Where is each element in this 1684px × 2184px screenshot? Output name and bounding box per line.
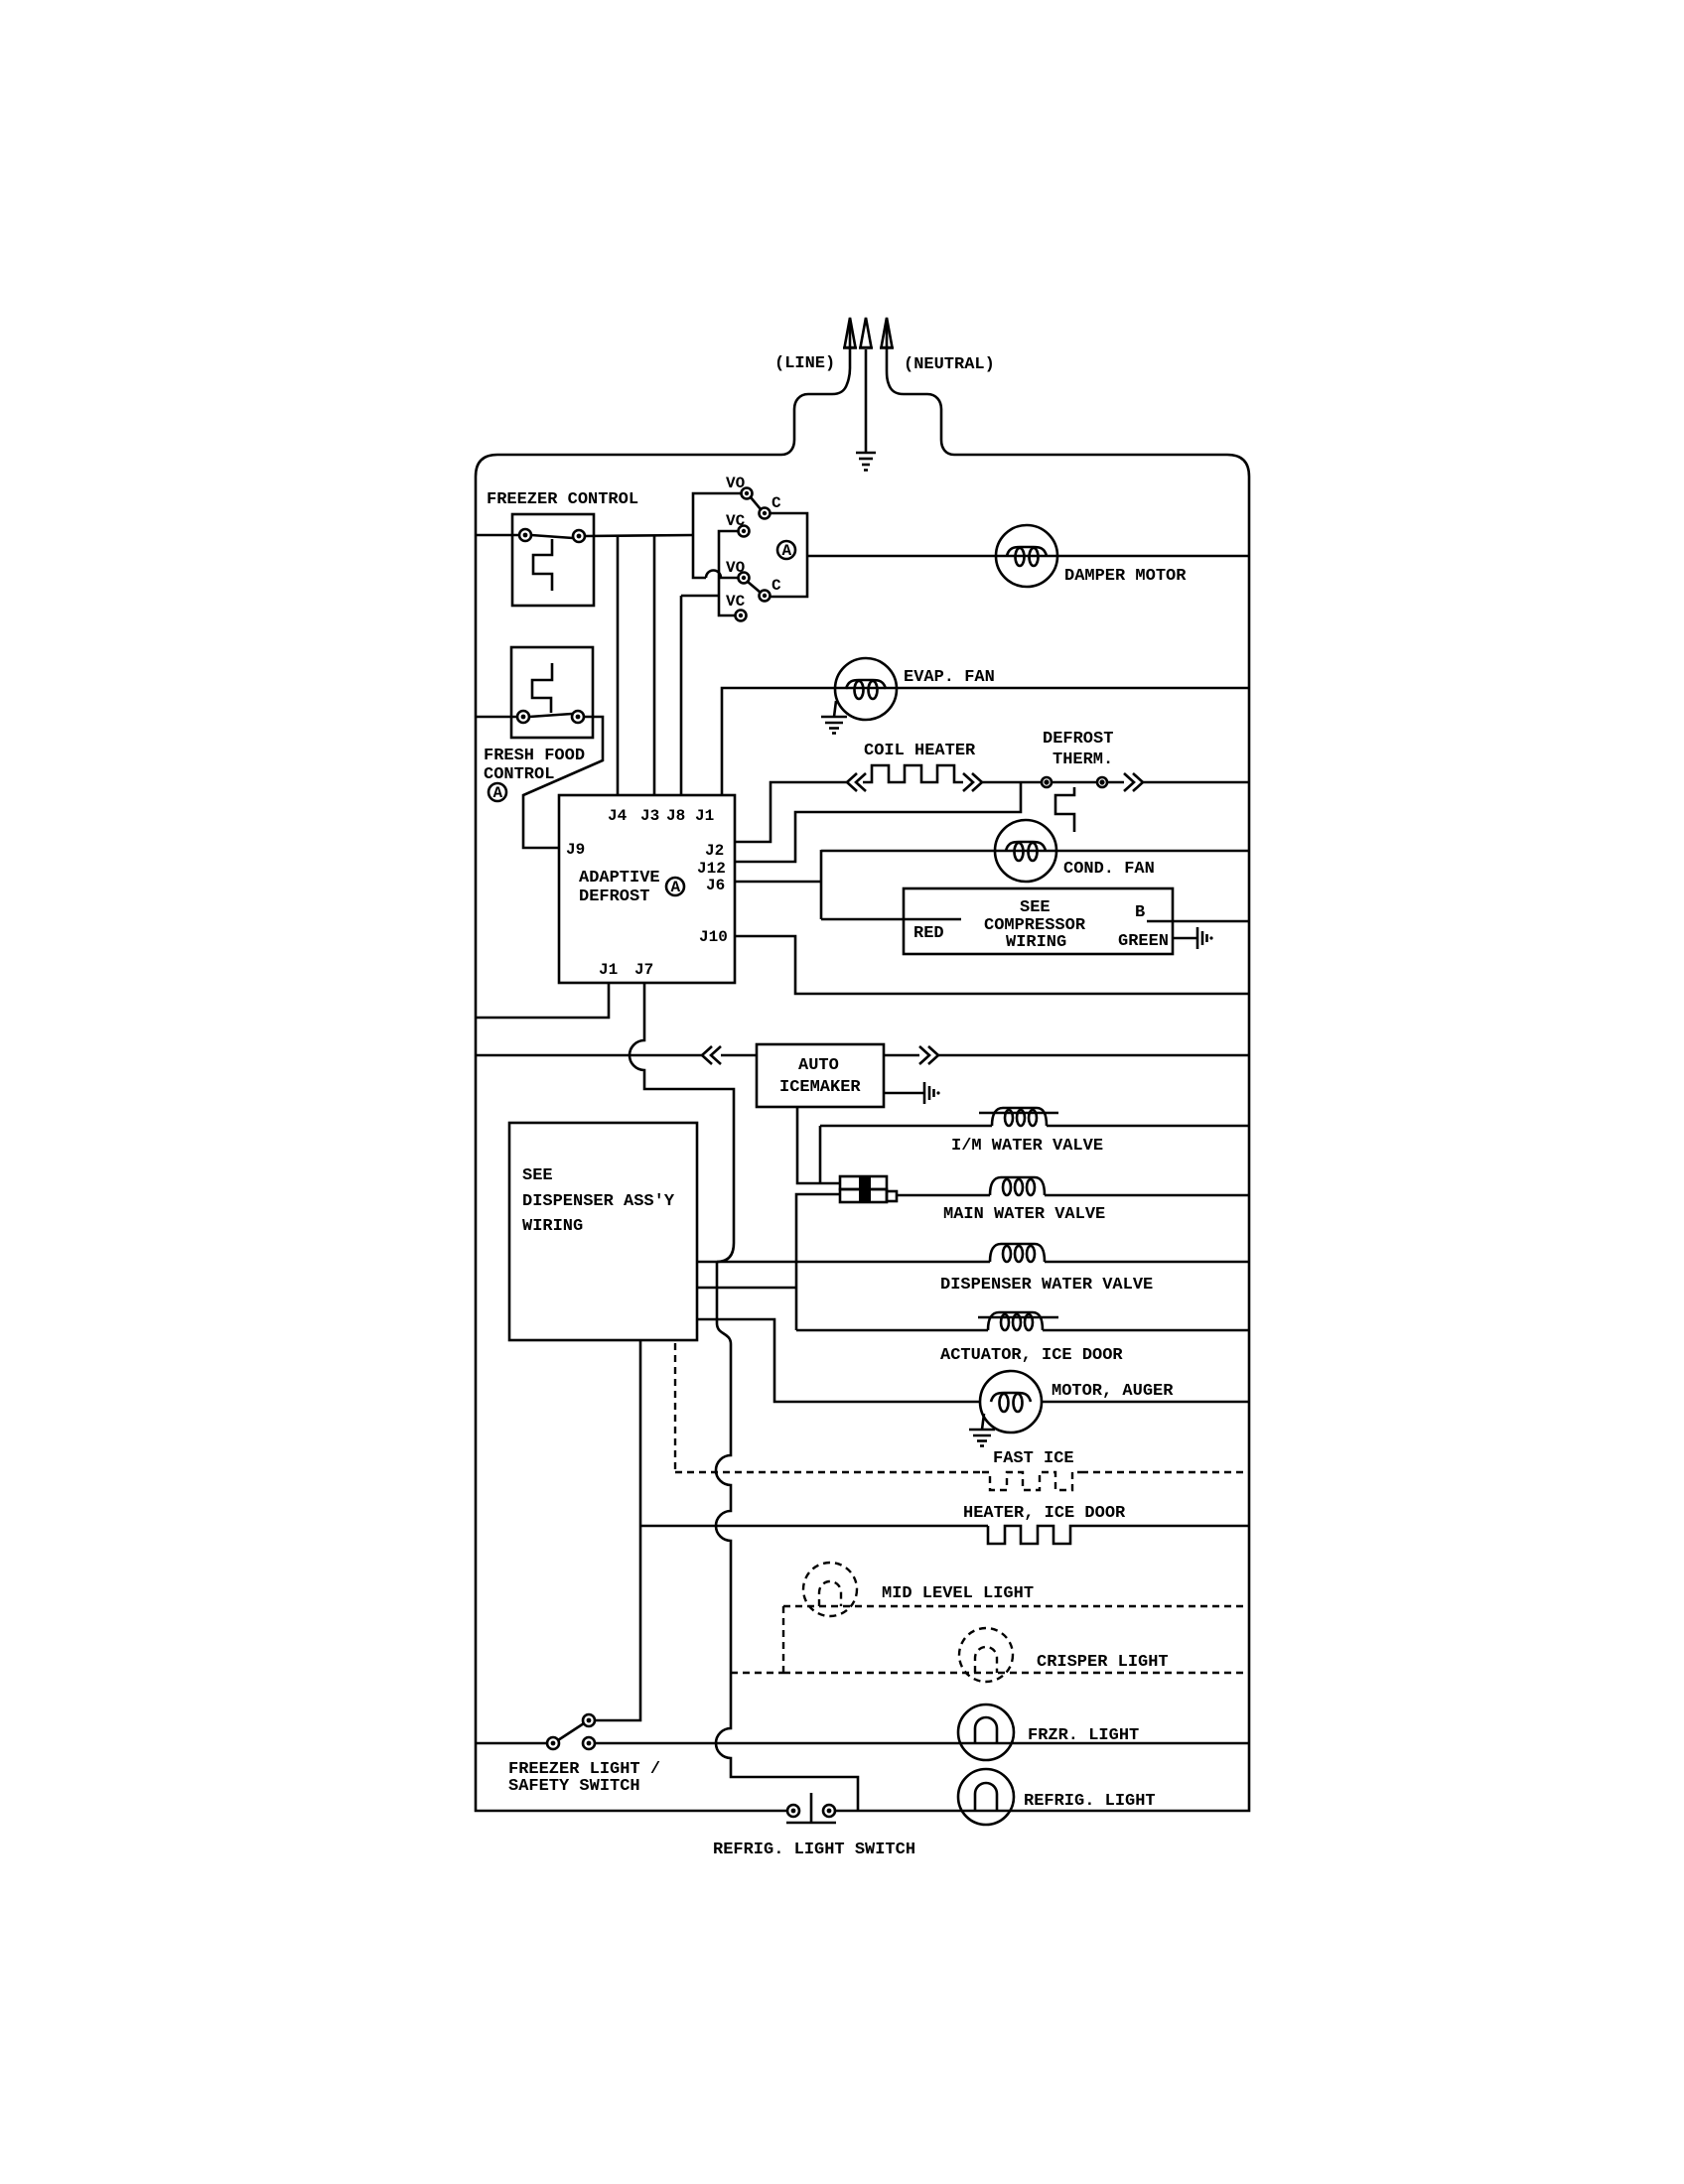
wire VC1 to VC riser: [719, 531, 738, 615]
wire NEUTRAL bus: hump, top edge, right edge, bottom edge to switch: [835, 349, 1249, 1811]
wire relay to damper motor: [807, 555, 1249, 558]
svg-text:DAMPER MOTOR: DAMPER MOTOR: [1064, 567, 1187, 586]
svg-text:THERM.: THERM.: [1052, 751, 1113, 769]
svg-text:ADAPTIVE: ADAPTIVE: [579, 869, 660, 887]
svg-text:REFRIG. LIGHT: REFRIG. LIGHT: [1024, 1792, 1156, 1811]
wire J8 riser elbow to VC riser: [681, 595, 719, 598]
svg-text:HEATER, ICE DOOR: HEATER, ICE DOOR: [963, 1504, 1126, 1523]
terminal VC1: [739, 526, 750, 537]
connector chevrons before coil heater: [847, 773, 866, 791]
relay box A: [770, 513, 807, 597]
wire defrost therm to right bus: [1143, 781, 1249, 784]
wire main valve to right bus: [1045, 1194, 1249, 1197]
supply arrow (ground): [859, 318, 873, 348]
svg-text:DEFROST: DEFROST: [579, 887, 649, 906]
evap fan motor M2: [835, 658, 897, 720]
svg-text:ICEMAKER: ICEMAKER: [779, 1078, 861, 1097]
crisper light lamp DS2 (dashed): [959, 1628, 1013, 1682]
svg-text:MID LEVEL LIGHT: MID LEVEL LIGHT: [882, 1584, 1034, 1603]
wire dispenser valve to right bus: [1045, 1261, 1249, 1264]
wire J6 to cond fan junction: [735, 881, 821, 884]
defrost thermostat sensing element: [1055, 787, 1074, 832]
freezer light switch blade: [558, 1723, 584, 1740]
ground at evap fan: [821, 701, 847, 734]
wire dashed branch crisper: [731, 1672, 783, 1674]
refrig light switch terminal right: [823, 1805, 835, 1817]
wire J12 to defrost therm junction: [735, 782, 1021, 862]
svg-text:J3: J3: [640, 807, 659, 825]
connector chevrons after defrost therm: [1124, 773, 1143, 791]
freezer control terminal left: [519, 529, 531, 541]
chassis ground at GREEN: [1197, 927, 1213, 949]
wire freezer light switch to frzr light: [595, 1742, 1249, 1745]
mid level light lamp DS1 (dashed): [803, 1563, 857, 1616]
main water valve coil L2: [990, 1177, 1045, 1195]
wire between defrost therm terminals: [1052, 781, 1097, 784]
terminal C2: [760, 591, 771, 602]
svg-text:FRESH FOOD: FRESH FOOD: [484, 747, 585, 765]
wire dispenser box to actuator riser: [697, 1287, 796, 1290]
coil heater element: [863, 765, 963, 782]
switch blade VO2-C2: [748, 582, 761, 593]
wire VO1 to VO riser: [693, 493, 741, 578]
actuator ice door coil L4: [978, 1312, 1058, 1330]
dispenser water valve coil L3: [990, 1244, 1045, 1262]
svg-text:A: A: [671, 879, 681, 896]
terminal VC2: [736, 611, 747, 621]
wire GREEN to chassis ground: [1173, 937, 1197, 940]
svg-text:SEE: SEE: [522, 1166, 553, 1185]
ground at auger motor: [969, 1414, 995, 1446]
wire B to right bus: [1147, 920, 1249, 923]
freezer light switch terminal right: [583, 1737, 595, 1749]
cond fan motor M3: [995, 820, 1056, 882]
riser J8: [680, 596, 683, 795]
fast ice heater element R1 (dashed): [982, 1472, 1081, 1490]
svg-text:DISPENSER ASS'Y: DISPENSER ASS'Y: [522, 1192, 675, 1211]
svg-text:J2: J2: [705, 842, 724, 860]
wire defrost therm to connector: [1107, 781, 1124, 784]
adaptive defrost board U1: [559, 795, 735, 983]
svg-text:VC: VC: [726, 593, 746, 611]
auger motor M4: [980, 1371, 1042, 1433]
switch blade VO1-C1: [751, 497, 761, 509]
svg-text:J8: J8: [666, 807, 685, 825]
supply arrow (NEUTRAL): [880, 318, 894, 349]
connector chevrons after icemaker: [919, 1046, 938, 1064]
svg-text:(NEUTRAL): (NEUTRAL): [904, 355, 995, 374]
connector chevrons after coil heater: [963, 773, 982, 791]
wire coil heater to defrost therm: [982, 781, 1042, 784]
compressor wiring box: [904, 888, 1173, 954]
fresh food sensing element: [532, 663, 552, 713]
fresh food terminal left: [517, 711, 529, 723]
wire crisper light dashed: [783, 1672, 1249, 1674]
freezer light switch terminal upper: [583, 1714, 595, 1726]
svg-text:SAFETY SWITCH: SAFETY SWITCH: [508, 1777, 640, 1796]
wire left edge to freezer control: [476, 534, 519, 537]
wire icemaker feed from left bus: [476, 1054, 702, 1057]
refrig light lamp DS4: [958, 1769, 1014, 1825]
supply arrow (LINE): [843, 318, 857, 349]
wire dashed riser to mid level light: [782, 1606, 784, 1673]
svg-text:J7: J7: [634, 961, 653, 979]
wire J2 to coil heater: [735, 782, 847, 842]
refrig light switch plunger: [786, 1793, 836, 1823]
svg-text:WIRING: WIRING: [522, 1217, 583, 1236]
wire RED to compressor: [821, 918, 961, 921]
wire heater ice door to right bus: [1079, 1525, 1249, 1528]
SUPPLY: [476, 318, 1249, 1811]
wire dispenser box to auger motor: [697, 1319, 980, 1402]
svg-text:EVAP. FAN: EVAP. FAN: [904, 668, 995, 687]
wire riser fuse to I/M valve: [819, 1126, 822, 1183]
svg-text:DEFROST: DEFROST: [1043, 730, 1113, 749]
earth ground symbol: [856, 453, 876, 471]
wire riser dispenser box bottom to freezer light switch: [594, 1340, 640, 1720]
wire to cond fan: [821, 850, 1249, 853]
auto icemaker box: [757, 1044, 884, 1107]
svg-text:J10: J10: [699, 928, 728, 946]
svg-text:GREEN: GREEN: [1118, 932, 1169, 951]
svg-text:J12: J12: [697, 860, 726, 878]
wire J7 riser with hop over icemaker wire: [630, 983, 734, 1262]
svg-text:COND. FAN: COND. FAN: [1063, 860, 1155, 879]
svg-text:J1: J1: [695, 807, 714, 825]
fresh food switch blade: [529, 714, 572, 717]
wire junction riser cond fan / compressor: [820, 850, 823, 919]
svg-text:FREEZER CONTROL: FREEZER CONTROL: [487, 490, 638, 509]
svg-text:COIL HEATER: COIL HEATER: [864, 742, 976, 760]
svg-text:REFRIG. LIGHT SWITCH: REFRIG. LIGHT SWITCH: [713, 1841, 915, 1859]
wire dispenser box stub to junction: [697, 1261, 717, 1264]
wire hop VO2 over VC riser: [706, 571, 738, 578]
defrost thermostat terminal left: [1042, 777, 1052, 787]
frzr light lamp DS3: [958, 1705, 1014, 1760]
wire I/M water valve: [820, 1125, 992, 1128]
connector plug (fuse): [840, 1175, 897, 1203]
freezer control switch blade: [531, 535, 573, 538]
fresh food terminal right: [572, 711, 584, 723]
freezer control sensing element: [533, 539, 552, 591]
freezer control box: [512, 514, 594, 606]
wire fuse to main water valve: [897, 1194, 990, 1197]
circle A fresh food: [489, 783, 506, 802]
svg-text:MOTOR, AUGER: MOTOR, AUGER: [1052, 1382, 1174, 1401]
riser J4: [617, 536, 620, 795]
connector chevrons before icemaker: [702, 1046, 721, 1064]
wire icemaker to connector right: [884, 1054, 919, 1057]
damper motor M1: [996, 525, 1057, 587]
svg-text:FAST ICE: FAST ICE: [993, 1449, 1074, 1468]
svg-text:A: A: [782, 542, 792, 560]
wire fast ice dashed to right bus: [1081, 1471, 1249, 1473]
wire fast ice dashed left: [675, 1471, 982, 1473]
wire J1 bottom to left bus: [476, 983, 609, 1018]
svg-text:B: B: [1135, 903, 1145, 922]
see dispenser assy wiring box: [509, 1123, 697, 1340]
svg-text:SEE: SEE: [1020, 898, 1051, 917]
wire connector to right bus: [938, 1054, 1249, 1057]
circle A adaptive defrost: [666, 878, 684, 896]
wire J10 to right bus: [735, 936, 1249, 994]
svg-text:J6: J6: [706, 877, 725, 894]
wire J1 riser to evap fan: [722, 688, 1249, 795]
wire actuator ice door: [796, 1329, 988, 1332]
wire fuse bottom left to actuator riser: [796, 1194, 840, 1330]
svg-text:WIRING: WIRING: [1006, 933, 1066, 952]
wire dashed riser from dispenser box to fast ice: [674, 1343, 676, 1472]
wire I/M valve to right bus: [1047, 1125, 1249, 1128]
terminal VO2: [739, 573, 750, 584]
chassis ground at icemaker: [924, 1082, 940, 1104]
wire ground lead: [865, 349, 868, 452]
svg-text:CONTROL: CONTROL: [484, 765, 554, 784]
svg-text:C: C: [772, 494, 781, 512]
svg-text:DISPENSER WATER VALVE: DISPENSER WATER VALVE: [940, 1276, 1153, 1295]
svg-text:VC: VC: [726, 512, 746, 530]
svg-text:I/M WATER VALVE: I/M WATER VALVE: [951, 1137, 1103, 1156]
refrig light switch terminal left: [787, 1805, 799, 1817]
svg-text:MAIN WATER VALVE: MAIN WATER VALVE: [943, 1205, 1105, 1224]
freezer control terminal right: [573, 530, 585, 542]
wire heater ice door: [640, 1525, 988, 1528]
svg-text:CRISPER LIGHT: CRISPER LIGHT: [1037, 1653, 1169, 1672]
riser J3: [653, 535, 656, 795]
svg-text:VO: VO: [726, 559, 746, 577]
heater ice door element R2: [988, 1526, 1079, 1544]
defrost thermostat terminal right: [1097, 777, 1107, 787]
wire icemaker bottom to fuse: [797, 1107, 840, 1183]
svg-text:AUTO: AUTO: [798, 1056, 839, 1075]
svg-text:RED: RED: [913, 924, 944, 943]
terminal C1: [760, 508, 771, 519]
wire LINE bus: hump, top edge, left edge, bottom edge to switch: [476, 349, 850, 1811]
wire dispenser water valve: [717, 1261, 990, 1264]
wire auger motor to right bus: [1042, 1401, 1249, 1404]
svg-text:A: A: [493, 784, 503, 802]
svg-text:FRZR. LIGHT: FRZR. LIGHT: [1028, 1726, 1139, 1745]
wire fresh food control to J9: [523, 717, 603, 848]
svg-text:(LINE): (LINE): [774, 354, 835, 373]
fresh food control box: [511, 647, 593, 738]
wire left bus to freezer light switch: [476, 1742, 547, 1745]
svg-text:J4: J4: [608, 807, 628, 825]
wire actuator to right bus: [1043, 1329, 1249, 1332]
I/M water valve coil L1: [979, 1108, 1058, 1126]
wire junction riser down (dispenser feeds): [716, 1262, 858, 1811]
svg-text:ACTUATOR, ICE DOOR: ACTUATOR, ICE DOOR: [940, 1346, 1123, 1365]
wire icemaker ground lead: [884, 1092, 924, 1095]
wire left edge to fresh food control: [476, 716, 517, 719]
wire mid level light dashed: [783, 1605, 1249, 1607]
freezer light switch terminal left: [547, 1737, 559, 1749]
circle A relay: [777, 541, 795, 560]
wire freezer control to VO riser (J4 J3 taps): [585, 535, 693, 536]
svg-text:J9: J9: [566, 841, 585, 859]
svg-text:C: C: [772, 577, 781, 595]
wire connector to icemaker box: [721, 1054, 757, 1057]
terminal VO1: [742, 488, 753, 499]
svg-text:J1: J1: [599, 961, 618, 979]
